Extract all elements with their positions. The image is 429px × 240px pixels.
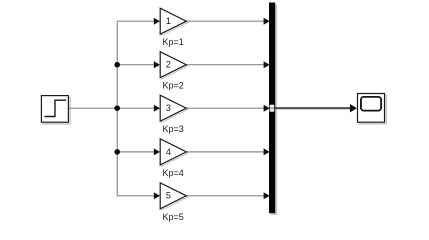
- svg-text:Kp=4: Kp=4: [163, 168, 184, 178]
- svg-text:5: 5: [166, 191, 171, 201]
- svg-text:Kp=1: Kp=1: [163, 37, 184, 47]
- svg-text:Kp=5: Kp=5: [163, 212, 184, 222]
- svg-text:2: 2: [166, 60, 171, 70]
- svg-text:Kp=2: Kp=2: [163, 81, 184, 91]
- svg-text:3: 3: [166, 103, 171, 113]
- svg-text:1: 1: [166, 16, 171, 26]
- svg-text:4: 4: [166, 147, 171, 157]
- svg-text:Kp=3: Kp=3: [163, 124, 184, 134]
